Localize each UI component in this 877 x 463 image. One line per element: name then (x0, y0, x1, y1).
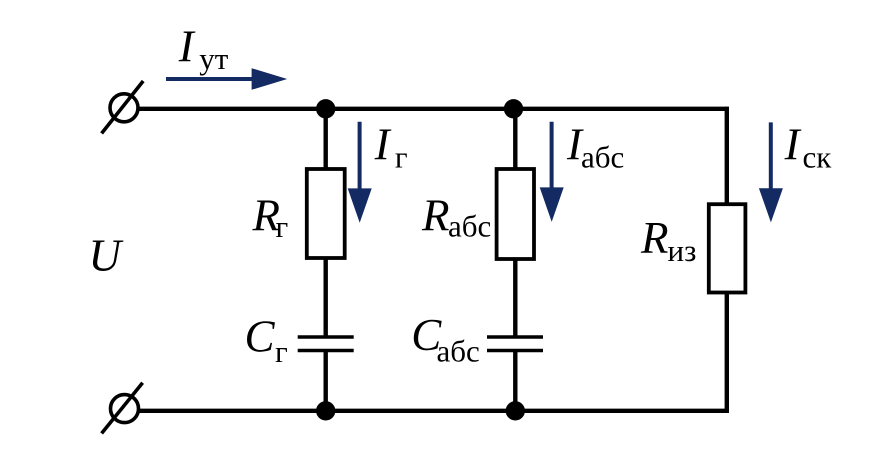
svg-text:R: R (421, 190, 450, 240)
svg-text:R: R (640, 213, 669, 263)
arrow I_g (down) (348, 122, 372, 223)
terminal top (circle with slash) (102, 81, 144, 133)
label R_abs (421, 190, 491, 243)
capacitor C_g plates (298, 337, 354, 351)
resistor R_abs body (497, 169, 534, 259)
wire branch2 lower (513, 351, 517, 411)
node junction dot branch1 top (316, 99, 335, 118)
svg-text:I: I (178, 22, 196, 72)
label C_abs (411, 310, 479, 369)
arrow I_abs (down) (540, 122, 564, 222)
svg-text:абс: абс (448, 208, 491, 243)
svg-text:C: C (245, 312, 276, 362)
svg-text:г: г (275, 334, 288, 369)
svg-text:I: I (374, 120, 392, 170)
node junction dot branch2 top (504, 99, 523, 118)
wire branch1 middle (324, 257, 328, 337)
wire bottom rail (138, 409, 729, 413)
label I_ut (178, 22, 229, 77)
svg-text:ск: ск (803, 140, 833, 175)
svg-text:I: I (784, 120, 802, 170)
wire top rail (138, 107, 729, 111)
node junction dot branch2 bottom (506, 401, 525, 420)
svg-text:абс: абс (581, 140, 624, 175)
node junction dot branch1 bottom (316, 401, 335, 420)
wire right branch vertical upper (725, 107, 729, 205)
resistor R_iz body (709, 204, 746, 292)
wire branch1 lower (324, 351, 328, 411)
svg-text:абс: абс (437, 334, 480, 369)
wire right branch vertical lower (725, 292, 729, 413)
resistor R_g body (307, 169, 345, 258)
capacitor C_abs plates (487, 337, 543, 351)
terminal bottom (circle with slash) (102, 383, 143, 434)
svg-text:из: из (668, 233, 697, 268)
svg-text:U: U (89, 231, 124, 281)
label I_sk (784, 120, 833, 175)
wire branch1 upper (324, 109, 328, 171)
label I_abs (566, 120, 624, 175)
wire branch2 upper (513, 109, 517, 171)
svg-text:г: г (395, 140, 408, 175)
wire branch2 middle (513, 258, 517, 337)
svg-text:г: г (276, 209, 289, 244)
label R_iz (640, 213, 696, 268)
label I_g (374, 120, 408, 175)
arrow I_ut (current direction, horizontal) (166, 68, 287, 90)
arrow I_sk (down) (759, 122, 783, 222)
svg-text:ут: ут (199, 41, 229, 76)
label C_g (245, 312, 288, 370)
label R_g (252, 190, 289, 244)
